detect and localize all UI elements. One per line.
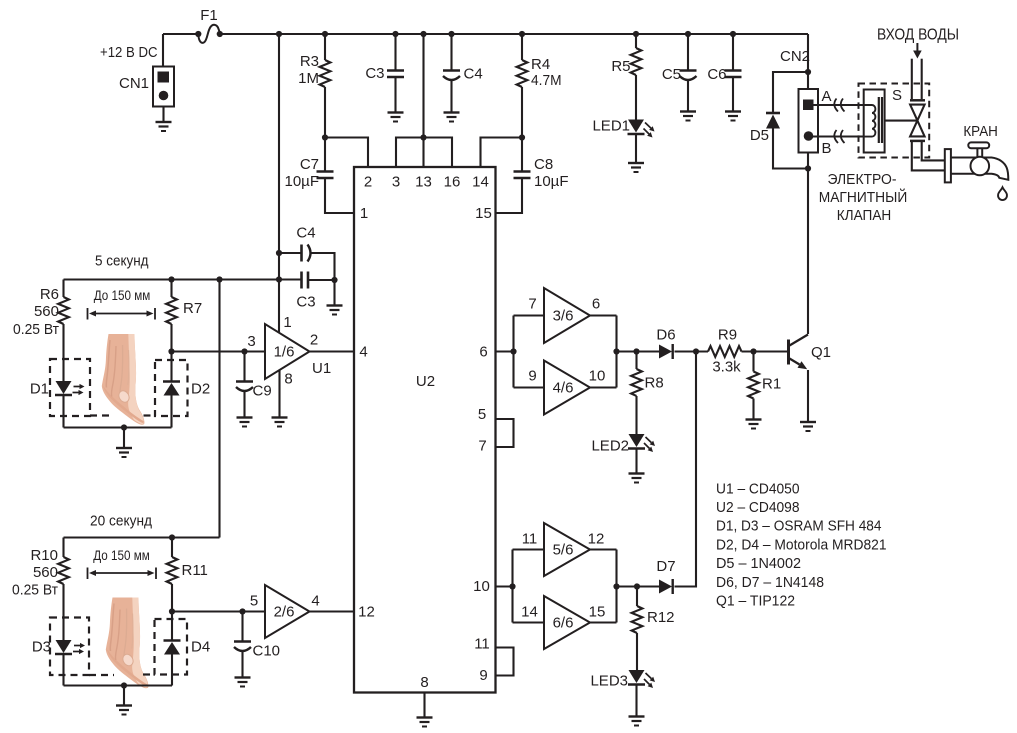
svg-text:B: B (822, 140, 832, 157)
svg-text:D2: D2 (191, 381, 210, 398)
capacitor C3 (top) (392, 31, 398, 37)
svg-text:CN1: CN1 (119, 75, 149, 92)
svg-text:R7: R7 (183, 300, 202, 317)
svg-text:D5: D5 (750, 127, 769, 144)
hand (20s sensed object) (106, 598, 149, 689)
svg-text:R8: R8 (645, 375, 664, 392)
svg-text:8: 8 (284, 371, 292, 388)
LED3 (629, 670, 645, 683)
svg-text:КЛАПАН: КЛАПАН (837, 207, 892, 224)
photodiode D4 (171, 612, 173, 641)
svg-text:2/6: 2/6 (274, 604, 295, 621)
svg-text:A: A (822, 88, 832, 105)
wire C3-C4 ground stub (333, 280, 335, 306)
wire pins 11-9 jumper (496, 648, 514, 676)
svg-text:U2 – CD4098: U2 – CD4098 (716, 499, 800, 516)
svg-text:1M: 1M (298, 70, 319, 87)
wire 5/6-6/6 output tee (590, 548, 617, 550)
pipe water inlet (911, 59, 913, 99)
ground LED2 (629, 472, 645, 474)
wire U1 pin8 ground (278, 370, 280, 418)
svg-text:C9: C9 (253, 383, 272, 400)
svg-text:14: 14 (521, 604, 538, 621)
solenoid valve dashed box (859, 84, 930, 158)
svg-text:D7: D7 (656, 558, 675, 575)
ground C9 (237, 416, 253, 418)
break symbol B (834, 130, 838, 143)
svg-text:6: 6 (479, 344, 487, 361)
wire 20s feed vertical (218, 280, 220, 538)
dashed box D4 (155, 619, 188, 675)
ground LED1 (628, 162, 644, 164)
svg-text:5/6: 5/6 (553, 542, 574, 559)
svg-text:10: 10 (473, 578, 490, 595)
wire pin13 vertical (420, 31, 426, 37)
wire R9 to Q1 base (742, 350, 788, 352)
ground C3 (top) (388, 111, 404, 113)
wire 20s rail (64, 536, 220, 538)
svg-text:560: 560 (33, 564, 58, 581)
wire CN1 riser (162, 34, 164, 67)
svg-text:6/6: 6/6 (553, 615, 574, 632)
svg-text:R1: R1 (762, 376, 781, 393)
capacitor C3 (U1) (300, 272, 303, 289)
wire 5s bottom rail (64, 426, 172, 428)
dimension arrow (20s) (87, 568, 89, 580)
svg-text:13: 13 (415, 174, 432, 191)
ground C4 (top) (444, 111, 460, 113)
dashed box D2 (155, 360, 188, 416)
wire pin 6 stub (496, 350, 514, 352)
svg-text:C4: C4 (296, 225, 315, 242)
resistor R5 (633, 31, 639, 37)
svg-text:2: 2 (310, 332, 318, 349)
wire pin2 link (325, 138, 368, 168)
capacitor C6 (730, 31, 736, 37)
svg-text:12: 12 (358, 604, 375, 621)
svg-text:C10: C10 (253, 643, 281, 660)
wire D6 to R9 (675, 350, 709, 352)
capacitor C9 (243, 352, 245, 382)
svg-text:R5: R5 (611, 58, 630, 75)
LED1 (628, 120, 644, 133)
svg-text:11: 11 (522, 531, 538, 548)
wire 5s rail (64, 278, 302, 280)
wire LED3 ground stub (635, 686, 637, 717)
svg-text:7: 7 (528, 296, 536, 313)
svg-text:D5 – 1N4002: D5 – 1N4002 (716, 555, 801, 572)
svg-text:R11: R11 (182, 562, 208, 579)
hand (5s sensed object) (102, 334, 145, 425)
svg-text:4/6: 4/6 (553, 380, 574, 397)
svg-text:3: 3 (247, 333, 255, 350)
svg-text:5: 5 (478, 406, 486, 423)
resistor R6 (62, 280, 64, 298)
svg-text:U1: U1 (312, 360, 331, 377)
resistor R3 (322, 31, 328, 37)
svg-text:12: 12 (588, 531, 605, 548)
svg-text:560: 560 (34, 303, 59, 320)
svg-text:9: 9 (528, 368, 536, 385)
wire to D6 (617, 350, 660, 352)
dashed box D1 (50, 359, 90, 416)
svg-text:D4: D4 (191, 639, 210, 656)
wire Q1 collector riser (807, 153, 809, 335)
ground C6 (725, 110, 741, 112)
wire to D7 (617, 585, 660, 587)
svg-text:Q1: Q1 (811, 344, 831, 361)
solenoid box (864, 90, 885, 153)
svg-text:C3: C3 (296, 294, 315, 311)
wire pin3-pin16 link (396, 138, 452, 168)
wire pin 10 stub (496, 585, 513, 587)
svg-text:LED3: LED3 (590, 673, 628, 690)
wire pin 8 ground (423, 693, 425, 718)
svg-text:0.25 Вт: 0.25 Вт (12, 582, 58, 599)
buffer U1 6/6 (544, 596, 590, 649)
svg-text:До 150 мм: До 150 мм (93, 548, 150, 563)
svg-text:D3: D3 (32, 639, 51, 656)
wire R7 to U1 input (172, 350, 266, 352)
buffer U1 1/6 (265, 324, 310, 379)
IC U2 (354, 167, 496, 693)
svg-text:10µF: 10µF (534, 173, 569, 190)
wire top-right corner (807, 34, 809, 89)
svg-text:CN2: CN2 (780, 48, 810, 65)
wire 2/6 output to pin 12 (310, 610, 355, 612)
IR LED D3 (56, 640, 72, 653)
LED2 (629, 434, 645, 447)
svg-text:5: 5 (250, 593, 258, 610)
svg-text:C4: C4 (464, 66, 483, 83)
svg-text:D6, D7 – 1N4148: D6, D7 – 1N4148 (716, 574, 824, 591)
resistor R10 (62, 538, 64, 558)
ground R1 (746, 418, 762, 420)
svg-text:ВХОД ВОДЫ: ВХОД ВОДЫ (877, 27, 959, 44)
svg-text:C8: C8 (534, 156, 553, 173)
svg-text:0.25 Вт: 0.25 Вт (13, 321, 59, 338)
wire 20s bottom rail (64, 684, 173, 686)
buffer U1 3/6 (544, 288, 590, 343)
svg-text:F1: F1 (200, 7, 218, 24)
connector CN1 (153, 67, 174, 107)
svg-text:3.3k: 3.3k (712, 359, 741, 376)
svg-text:U1 – CD4050: U1 – CD4050 (716, 480, 800, 497)
svg-text:10µF: 10µF (285, 173, 320, 190)
svg-text:4.7M: 4.7M (531, 72, 562, 89)
svg-text:До 150 мм: До 150 мм (94, 288, 151, 303)
svg-text:1: 1 (283, 314, 291, 331)
svg-text:R12: R12 (647, 609, 675, 626)
svg-text:R10: R10 (30, 547, 58, 564)
arrow water inlet (916, 43, 918, 51)
capacitor C4 (U1) (276, 250, 282, 256)
svg-text:R4: R4 (531, 56, 550, 73)
break symbol A (834, 99, 838, 112)
diode D6 (659, 345, 672, 359)
wire LED2 ground stub (635, 450, 637, 474)
wire CN2-A to solenoid (814, 104, 873, 106)
wire CN2-B to solenoid (813, 135, 872, 137)
wire U1 output to pin 4 (310, 350, 355, 352)
svg-text:C6: C6 (707, 66, 726, 83)
capacitor C4 (top) (448, 31, 454, 37)
svg-text:LED2: LED2 (591, 438, 629, 455)
solenoid coil (864, 105, 876, 137)
svg-text:14: 14 (472, 174, 489, 191)
svg-text:Q1 – TIP122: Q1 – TIP122 (716, 593, 795, 610)
ground LED3 (629, 715, 645, 717)
diode D5 (773, 72, 808, 112)
IR LED D1 (62, 380, 64, 382)
svg-text:ЭЛЕКТРО-: ЭЛЕКТРО- (828, 171, 897, 188)
dashed box D3 (50, 618, 89, 676)
ground C10 (235, 676, 251, 678)
resistor R4 (519, 31, 525, 37)
buffer U1 4/6 (544, 361, 590, 415)
svg-text:D6: D6 (656, 327, 675, 344)
wire 3/6-4/6 output tee (590, 314, 617, 316)
water drop (998, 187, 1007, 200)
svg-text:6: 6 (592, 296, 600, 313)
transistor Q1 (787, 340, 790, 365)
svg-text:LED1: LED1 (592, 118, 630, 135)
resistor R12 (636, 587, 638, 607)
svg-text:D2, D4 – Motorola MRD821: D2, D4 – Motorola MRD821 (716, 536, 887, 553)
resistor R7 (170, 280, 172, 298)
ground C3-C4 (U1) (327, 304, 343, 306)
diode D7 (659, 580, 672, 594)
wire U1 power vertical (278, 34, 280, 332)
svg-text:+12 В DC: +12 В DC (100, 44, 158, 61)
ground U2 pin 8 (417, 716, 433, 718)
svg-text:C7: C7 (300, 156, 319, 173)
capacitor C7 (324, 138, 326, 171)
wire +12V top rail (163, 33, 199, 35)
fuse F1 (198, 25, 220, 43)
connector CN2 (799, 89, 819, 153)
svg-text:МАГНИТНЫЙ: МАГНИТНЫЙ (819, 188, 908, 206)
ground CN1 (156, 121, 172, 123)
svg-text:R9: R9 (718, 327, 737, 344)
dimension arrow (5s) (87, 308, 89, 320)
svg-text:C3: C3 (365, 65, 384, 82)
svg-text:3/6: 3/6 (553, 308, 574, 325)
photodiode D2 (170, 352, 172, 382)
buffer U1 2/6 (265, 585, 310, 638)
svg-text:D1, D3 – OSRAM SFH 484: D1, D3 – OSRAM SFH 484 (716, 518, 882, 535)
capacitor C10 (241, 612, 243, 642)
svg-text:U2: U2 (416, 373, 435, 390)
svg-text:1: 1 (360, 205, 368, 222)
wire 5/6-6/6 input tee (511, 550, 513, 623)
svg-text:4: 4 (359, 344, 367, 361)
ground 5s sensors (116, 447, 132, 449)
svg-text:11: 11 (474, 636, 490, 653)
svg-text:15: 15 (589, 604, 606, 621)
svg-text:5 секунд: 5 секунд (95, 253, 149, 270)
svg-text:15: 15 (475, 205, 492, 222)
ground U1 pin 8 (272, 416, 288, 418)
svg-text:КРАН: КРАН (963, 123, 998, 140)
svg-text:3: 3 (392, 174, 400, 191)
svg-text:1/6: 1/6 (274, 344, 295, 361)
wire pins 5-7 jumper (496, 419, 514, 447)
svg-text:R6: R6 (40, 286, 59, 303)
svg-text:2: 2 (364, 174, 372, 191)
resistor R11 (171, 538, 173, 558)
resistor R1 (752, 352, 754, 372)
svg-text:D1: D1 (30, 381, 49, 398)
ground Q1 emitter (800, 421, 816, 423)
wire R11 to 2/6 input (172, 610, 265, 612)
wire solenoid to valve (885, 120, 918, 122)
svg-text:S: S (892, 87, 902, 104)
wire 3/6-4/6 input tee (512, 316, 514, 388)
svg-text:10: 10 (589, 368, 606, 385)
svg-text:20 секунд: 20 секунд (90, 513, 152, 530)
faucet (950, 158, 1008, 180)
resistor R9 (708, 346, 742, 357)
capacitor C5 (685, 31, 691, 37)
svg-text:8: 8 (420, 674, 428, 691)
valve symbol (910, 105, 925, 121)
svg-text:16: 16 (444, 174, 461, 191)
resistor R8 (635, 352, 637, 370)
svg-text:4: 4 (311, 593, 319, 610)
pipe valve outlet (910, 140, 925, 143)
wire D7 to D6 node (675, 352, 697, 587)
ground C5 (680, 110, 696, 112)
wire LED1 to ground (635, 135, 637, 163)
svg-text:7: 7 (478, 438, 486, 455)
svg-text:C5: C5 (662, 66, 681, 83)
buffer U1 5/6 (544, 523, 590, 576)
capacitor C8 (521, 138, 523, 171)
solenoid core (878, 97, 880, 143)
ground 20s sensors (116, 704, 132, 706)
wire pin14 link (481, 138, 523, 168)
svg-text:9: 9 (479, 667, 487, 684)
svg-text:R3: R3 (300, 53, 319, 70)
